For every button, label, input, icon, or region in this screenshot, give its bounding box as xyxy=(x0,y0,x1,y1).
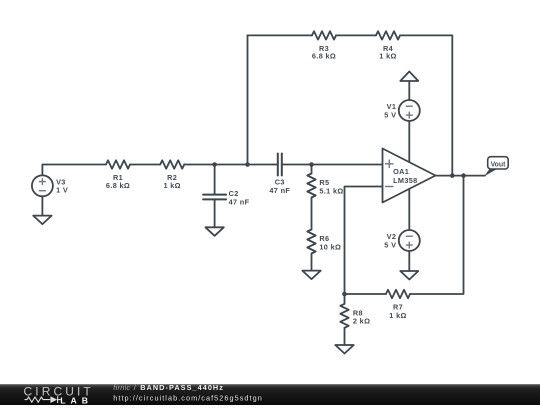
junction node at output R7 branch xyxy=(461,173,466,178)
wire V1 to op-amp V+ pin xyxy=(408,121,410,163)
wire R1 to R2 xyxy=(130,164,160,166)
svg-text:C2: C2 xyxy=(229,189,239,198)
resistor R2 xyxy=(160,160,184,168)
wire R5 to R6 xyxy=(311,198,313,230)
wire R2 to C3 xyxy=(184,164,278,166)
resistor R7 xyxy=(386,290,410,298)
svg-text:1 V: 1 V xyxy=(56,186,68,195)
svg-text:47 nF: 47 nF xyxy=(269,186,290,195)
svg-text:6.8 kΩ: 6.8 kΩ xyxy=(106,181,130,190)
wire C3 to op-amp noninverting input xyxy=(282,164,383,166)
wire R4 to right corner xyxy=(400,34,452,36)
logo resistor-diode squiggle xyxy=(25,396,61,403)
ground below V3 xyxy=(33,216,51,225)
supply arrow above V1 xyxy=(400,72,418,101)
resistor R4 xyxy=(376,31,400,39)
wire V3 to R1 xyxy=(42,165,106,176)
resistor R1 xyxy=(106,160,130,168)
wire V3 to ground xyxy=(41,196,43,215)
voltage source V2 xyxy=(399,230,420,251)
wire C2 to ground xyxy=(214,199,216,227)
resistor R8 xyxy=(340,304,348,328)
svg-text:5 V: 5 V xyxy=(384,240,396,249)
ground below R8 xyxy=(335,345,353,354)
capacitor C3 xyxy=(278,154,282,176)
ground below C2 xyxy=(205,227,223,236)
voltage source V1 xyxy=(399,100,420,121)
resistor R5 xyxy=(307,174,315,198)
wire junction to C2 xyxy=(214,165,216,195)
op-amp input polarity marks xyxy=(385,160,394,187)
junction node R7 R8 xyxy=(342,292,347,297)
svg-text:10 kΩ: 10 kΩ xyxy=(319,242,341,251)
svg-text:1 kΩ: 1 kΩ xyxy=(163,181,180,190)
resistor R3 xyxy=(312,31,336,39)
svg-text:1 kΩ: 1 kΩ xyxy=(379,52,396,61)
svg-text:OA1: OA1 xyxy=(393,167,409,176)
wire feedback right vertical xyxy=(451,35,453,175)
polarity marks V2 xyxy=(406,236,413,248)
junction node at R5 tap xyxy=(309,162,314,167)
junction node at C2 tap xyxy=(212,162,217,167)
wire junction to R5 xyxy=(311,165,313,174)
wire R6 to ground xyxy=(311,254,313,271)
wire node to R8 xyxy=(344,294,346,304)
svg-text:1 kΩ: 1 kΩ xyxy=(389,311,406,320)
junction node at feedback tap xyxy=(245,162,250,167)
wire feedback left vertical xyxy=(247,35,249,164)
wire op-amp output xyxy=(436,175,486,177)
svg-text:47 nF: 47 nF xyxy=(229,198,250,207)
capacitor C2 xyxy=(203,195,226,200)
ground below R6 xyxy=(302,271,320,280)
voltage source V3 xyxy=(32,175,53,196)
wire op-amp inverting input xyxy=(345,187,383,295)
footer bar xyxy=(0,384,540,405)
svg-text:Vout: Vout xyxy=(491,161,507,168)
wire op-amp V- pin to V2 xyxy=(408,188,410,230)
svg-text:5 V: 5 V xyxy=(384,110,396,119)
Vout flag xyxy=(484,157,508,177)
svg-text:LM358: LM358 xyxy=(393,176,417,185)
resistor R6 xyxy=(307,230,315,254)
svg-text:firnic / BAND-PASS_440Hz: firnic / BAND-PASS_440Hz xyxy=(113,383,224,392)
polarity marks V3 xyxy=(39,178,46,191)
supply arrow below V2 xyxy=(400,251,418,280)
svg-text:LAB: LAB xyxy=(60,395,93,405)
svg-text:6.8 kΩ: 6.8 kΩ xyxy=(312,52,336,61)
op-amp OA1 triangle xyxy=(383,149,436,203)
polarity marks V1 xyxy=(406,106,413,118)
svg-text:http://circuitlab.com/caf526g5: http://circuitlab.com/caf526g5sdtgn xyxy=(113,393,263,402)
wire R7 to node xyxy=(345,293,387,295)
wire R3 to R4 xyxy=(336,34,376,36)
junction node at output feedback xyxy=(450,173,455,178)
svg-text:5.1 kΩ: 5.1 kΩ xyxy=(319,187,343,196)
wire top left segment xyxy=(248,34,313,36)
svg-text:2 kΩ: 2 kΩ xyxy=(353,317,370,326)
wire R8 to ground xyxy=(344,328,346,345)
wire output to R7 branch xyxy=(410,176,464,294)
